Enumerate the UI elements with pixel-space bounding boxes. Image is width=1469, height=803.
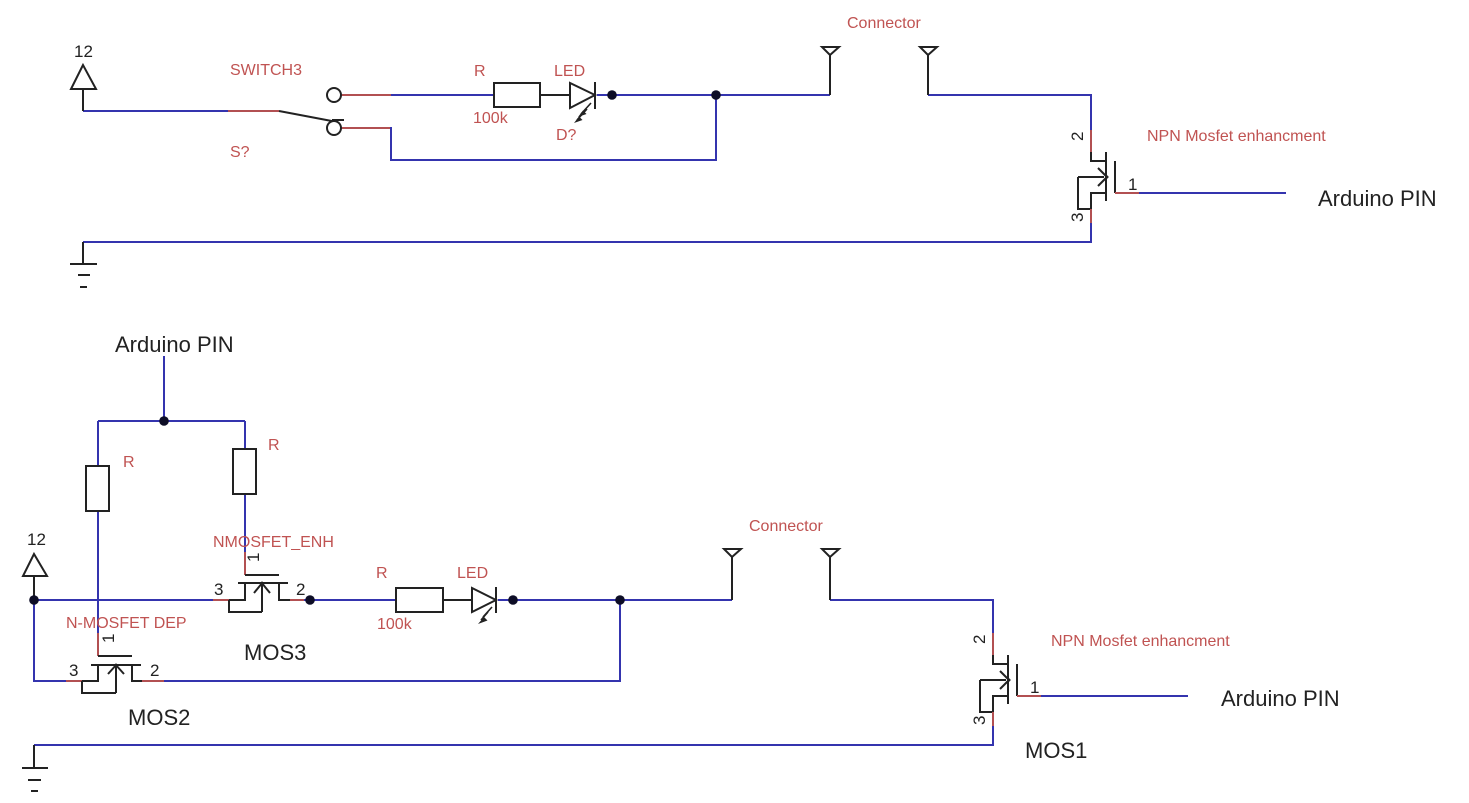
node junction after LED bottom [508, 595, 518, 605]
svg-text:Connector: Connector [847, 15, 921, 32]
wire Arduino PIN drop (blue) [163, 356, 165, 421]
svg-text:1: 1 [99, 634, 118, 643]
svg-text:NPN Mosfet enhancment: NPN Mosfet enhancment [1147, 128, 1326, 145]
svg-text:Arduino PIN: Arduino PIN [115, 332, 234, 357]
svg-text:SWITCH3: SWITCH3 [230, 62, 302, 79]
svg-text:1: 1 [1128, 175, 1137, 194]
LED D? top [570, 82, 595, 123]
power +12 bottom [23, 530, 47, 600]
wire Q1 gate to Arduino PIN (blue) [1139, 192, 1286, 194]
wire switch to resistor (blue) [391, 94, 494, 96]
wire V1 to switch common (blue) [83, 110, 228, 112]
ground bottom circuit [22, 745, 48, 791]
wire LED to connector bottom (blue) [498, 599, 732, 601]
svg-text:R: R [474, 63, 486, 80]
wire 12V node to MOS3 pin3 (blue) [34, 599, 213, 601]
svg-text:MOS1: MOS1 [1025, 738, 1087, 763]
wire to right resistor (blue) [244, 421, 246, 449]
wire left resistor to MOS2 gate (blue) [97, 511, 99, 633]
ground top circuit [70, 242, 97, 287]
transistor MOS3 NMOSFET_ENH [213, 552, 305, 612]
svg-text:3: 3 [69, 661, 78, 680]
wire connector to Q1 drain (blue) [928, 95, 1091, 130]
svg-text:1: 1 [244, 553, 263, 562]
wire to left resistor (blue) [97, 421, 99, 466]
transistor Q1 NPN mosfet enhancement (top right) [1068, 130, 1139, 223]
resistor R 100k top [494, 83, 540, 107]
svg-text:12: 12 [74, 42, 93, 61]
node junction loop bottom [615, 595, 625, 605]
svg-text:3: 3 [214, 580, 223, 599]
wire node down to MOS2 pin2 (blue) [164, 600, 620, 681]
svg-text:MOS2: MOS2 [128, 705, 190, 730]
svg-text:LED: LED [554, 63, 585, 80]
wire MOS1 source to ground (blue) [34, 726, 993, 745]
wire Q1 source to ground (blue) [83, 223, 1091, 242]
svg-text:LED: LED [457, 565, 488, 582]
node junction after LED [607, 90, 617, 100]
svg-text:Connector: Connector [749, 518, 823, 535]
wire right resistor to MOS3 gate (blue) [244, 494, 246, 552]
svg-text:Arduino PIN: Arduino PIN [1221, 686, 1340, 711]
connector pin bottom-left [724, 549, 741, 600]
connector pin top-left [822, 47, 839, 95]
node junction divider [159, 416, 169, 426]
wire switch throw2 pin (red) [341, 127, 391, 129]
svg-text:2: 2 [970, 635, 989, 644]
node junction MOS3 pin2 [305, 595, 315, 605]
wire connector to MOS1 drain (blue) [830, 600, 993, 633]
transistor MOS2 N-MOSFET DEP [66, 633, 164, 693]
connector pin bottom-right [822, 549, 839, 600]
svg-text:3: 3 [1068, 213, 1087, 222]
switch S? (SWITCH3) [279, 88, 344, 135]
svg-text:Arduino PIN: Arduino PIN [1318, 186, 1437, 211]
svg-text:NMOSFET_ENH: NMOSFET_ENH [213, 534, 334, 551]
svg-text:100k: 100k [473, 110, 509, 127]
svg-text:N-MOSFET DEP: N-MOSFET DEP [66, 615, 187, 632]
resistor R right (vertical) [233, 449, 256, 494]
svg-text:S?: S? [230, 144, 250, 161]
resistor R left (vertical) [86, 466, 109, 511]
LED bottom [472, 587, 496, 624]
wire resistor to LED (black) [540, 94, 570, 96]
svg-text:R: R [268, 437, 280, 454]
svg-text:12: 12 [27, 530, 46, 549]
svg-text:MOS3: MOS3 [244, 640, 306, 665]
wire divider top (blue) [98, 420, 245, 422]
svg-text:2: 2 [1068, 132, 1087, 141]
node junction loop [711, 90, 721, 100]
transistor MOS1 NPN mosfet enhancement (bottom right) [970, 633, 1041, 726]
svg-text:R: R [123, 454, 135, 471]
svg-text:NPN Mosfet enhancment: NPN Mosfet enhancment [1051, 633, 1230, 650]
svg-text:R: R [376, 565, 388, 582]
svg-text:D?: D? [556, 127, 577, 144]
svg-text:3: 3 [970, 716, 989, 725]
svg-text:1: 1 [1030, 678, 1039, 697]
wire throw2 loop to node (blue) [391, 95, 716, 160]
wire MOS1 gate to Arduino PIN (blue) [1041, 695, 1188, 697]
connector pin top-right [920, 47, 937, 95]
wire switch throw1 pin (red) [341, 94, 391, 96]
wire switch common pin (red) [228, 110, 279, 112]
svg-text:100k: 100k [377, 616, 413, 633]
node junction at 12V [29, 595, 39, 605]
svg-text:2: 2 [296, 580, 305, 599]
wire MOS3 pin2 to resistor (blue) [304, 599, 396, 601]
wire 12V node down to MOS2 pin3 (blue) [34, 600, 66, 681]
wire LED to connector (blue) [597, 94, 830, 96]
wire resistor to LED bottom (black) [443, 599, 472, 601]
resistor R 100k bottom [396, 588, 443, 612]
power +12 top [71, 42, 96, 111]
svg-text:2: 2 [150, 661, 159, 680]
